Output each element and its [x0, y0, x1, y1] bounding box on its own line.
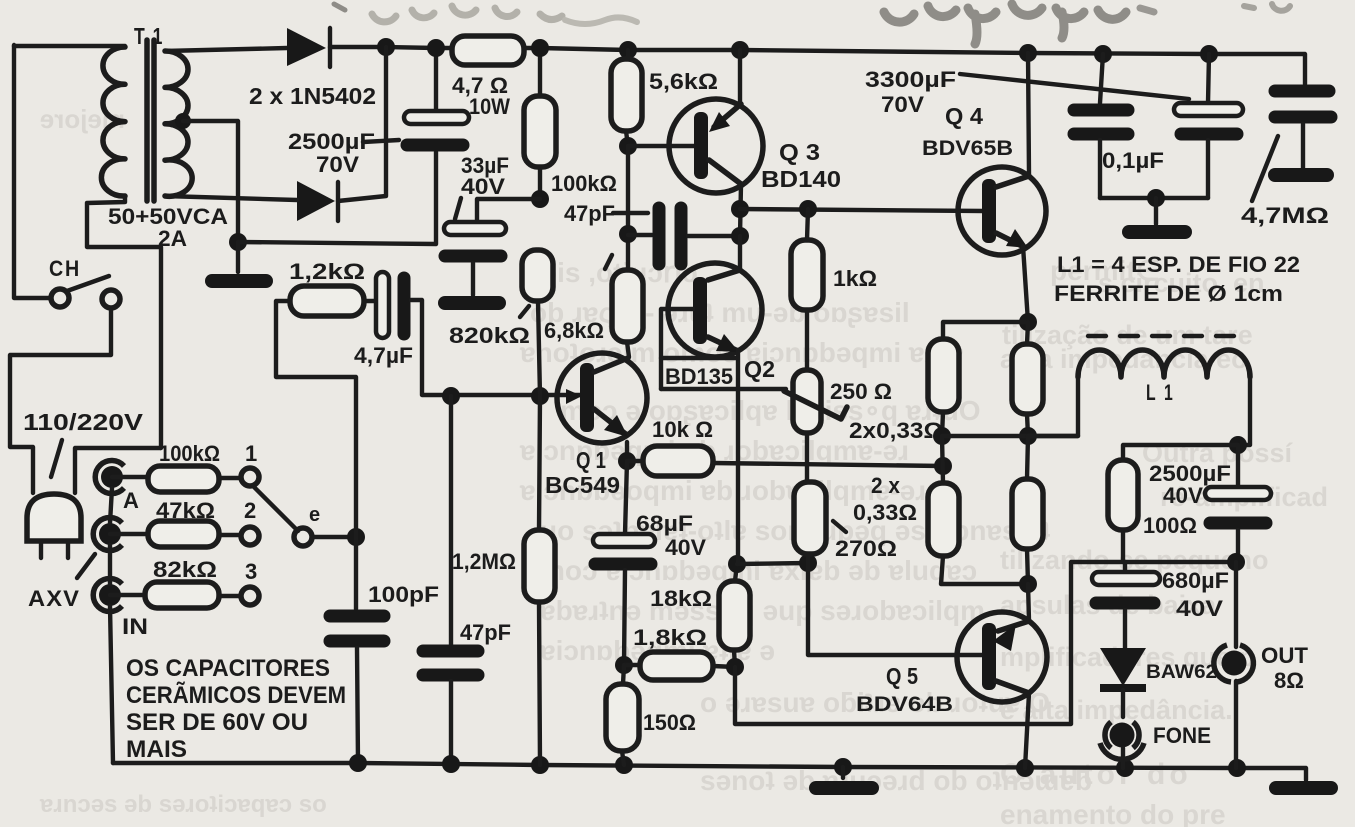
svg-text:BD140: BD140 — [761, 166, 841, 192]
node rail 5.6k — [619, 41, 637, 59]
svg-text:CERÃMICOS DEVEM: CERÃMICOS DEVEM — [126, 681, 346, 709]
node pair1 bottom right — [1019, 427, 1037, 445]
svg-text:2 x 1N5402: 2 x 1N5402 — [249, 83, 376, 109]
contact 2 — [241, 527, 259, 545]
node rail 47pF — [442, 755, 460, 773]
wire top rail — [330, 47, 1305, 84]
resistor 0.33 pair2 left — [928, 483, 1028, 584]
contact 1 — [241, 468, 259, 486]
svg-text:68µF: 68µF — [636, 511, 693, 536]
capacitor 68uF 40V — [593, 461, 655, 665]
wire jack A to resistor — [112, 475, 148, 479]
node center tap — [175, 113, 191, 129]
svg-text:MAIS: MAIS — [126, 736, 187, 763]
resistor 150R — [606, 665, 639, 765]
node rail gnd mid — [834, 758, 852, 776]
resistor 1.2k — [290, 286, 364, 316]
wire pair1 bottoms to L1 — [942, 434, 1078, 438]
wire left rail from top corner to switch CH — [14, 45, 51, 298]
svg-text:100kΩ: 100kΩ — [159, 441, 220, 466]
node e junction — [347, 528, 365, 546]
node Q4 emitter — [1019, 313, 1037, 331]
svg-text:CH: CH — [49, 256, 81, 281]
resistor 100R — [1108, 445, 1238, 562]
node Q3 base — [619, 137, 637, 155]
resistor 82k input — [145, 582, 219, 608]
node D1 output — [377, 38, 395, 56]
transistor Q3 BD140 — [669, 50, 763, 236]
node rail 1.2M — [531, 756, 549, 774]
node output junction — [1227, 553, 1245, 571]
svg-text:1: 1 — [245, 441, 257, 466]
svg-text:100pF: 100pF — [368, 582, 439, 607]
resistor 820k — [522, 250, 553, 396]
svg-text:82kΩ: 82kΩ — [153, 557, 217, 582]
svg-text:40V: 40V — [665, 535, 706, 560]
svg-text:10k Ω: 10k Ω — [652, 417, 713, 442]
node pair1 bottom left — [933, 427, 951, 445]
wire primary bottom loop to 110/220V — [75, 196, 161, 493]
wire 47pF to ground rail — [449, 681, 453, 764]
capacitor 100pF — [330, 537, 384, 763]
jack AXV — [93, 518, 122, 551]
svg-text:1,2MΩ: 1,2MΩ — [452, 549, 516, 574]
wire pair1 to pair2 left — [942, 436, 943, 483]
wire resistor to contact 1 — [219, 476, 240, 480]
svg-text:3: 3 — [245, 559, 257, 584]
svg-text:enamento do pre: enamento do pre — [1000, 799, 1226, 827]
label BD135 boxed — [661, 358, 737, 389]
wire center tap to 2500uF negative — [238, 152, 436, 244]
switch CH — [51, 276, 120, 308]
transformer T1 — [101, 40, 192, 201]
svg-text:T 1: T 1 — [134, 23, 164, 49]
wire Q3 collector to Q4 base — [740, 209, 984, 211]
svg-text:1kΩ: 1kΩ — [833, 266, 877, 291]
svg-text:BDV65B: BDV65B — [922, 137, 1013, 160]
svg-text:3300µF: 3300µF — [865, 67, 956, 92]
svg-text:ɐbɐɹʇnə məssoq əup səɹobɐɔilqm: ɐbɐɹʇnə məssoq əup səɹobɐɔilqm — [539, 595, 985, 626]
node Q3 collector — [731, 200, 749, 218]
node rail 150R — [615, 756, 633, 774]
svg-text:10W: 10W — [469, 94, 510, 119]
wire 5.6k node down to 47pF — [626, 146, 630, 270]
resistor 1k — [791, 209, 823, 370]
svg-text:18kΩ: 18kΩ — [650, 586, 712, 611]
wire 270R node to Q5 base — [808, 563, 984, 655]
svg-text:150Ω: 150Ω — [643, 710, 696, 735]
potentiometer 250R — [784, 370, 847, 433]
wire e to amp input — [312, 535, 356, 539]
jack IN — [93, 579, 122, 612]
wire 4.7uF to Q1 base — [411, 300, 581, 395]
node rail out — [1228, 759, 1246, 777]
node 18k-1.8k — [726, 658, 744, 676]
svg-text:L 1: L 1 — [1146, 380, 1175, 405]
node 1k top — [799, 200, 817, 218]
svg-text:820kΩ: 820kΩ — [449, 323, 530, 348]
wire jack IN to resistor — [110, 593, 145, 597]
wire 47pF branch down — [449, 396, 453, 645]
jack FONE — [1100, 722, 1144, 768]
capacitor 4.7M branch — [1275, 91, 1331, 168]
svg-text:AXV: AXV — [28, 586, 80, 611]
wire D2 output up to rail — [338, 47, 386, 201]
transistor Q4 BDV65B — [958, 53, 1046, 322]
capacitor 680uF 40V — [1092, 562, 1160, 648]
wire Q2 base — [661, 309, 693, 389]
resistor 0.33 pair2 right — [1012, 436, 1043, 584]
svg-text:IN: IN — [122, 614, 148, 639]
svg-text:Q 5: Q 5 — [886, 663, 918, 689]
svg-text:A: A — [123, 488, 139, 513]
jack OUT — [1214, 562, 1254, 768]
wire 10k to 0.33 pair2 — [713, 463, 943, 466]
svg-text:4,7MΩ: 4,7MΩ — [1241, 203, 1329, 228]
selector arm e — [253, 486, 312, 546]
node 10k line junction — [934, 457, 952, 475]
svg-text:8Ω: 8Ω — [1274, 668, 1304, 693]
wire Q3 base — [628, 144, 694, 148]
resistor 270R — [794, 433, 826, 563]
svg-text:47pF: 47pF — [460, 620, 511, 645]
svg-text:70V: 70V — [316, 152, 359, 177]
ground 4.7M branch — [1275, 168, 1327, 182]
svg-text:SER DE 60V OU: SER DE 60V OU — [126, 709, 308, 736]
node rail fone — [1116, 759, 1134, 777]
svg-text:L1 = 4 ESP. DE FIO 22: L1 = 4 ESP. DE FIO 22 — [1057, 252, 1300, 277]
node base-47pF junction — [442, 387, 460, 405]
resistor 5.6k — [611, 50, 642, 146]
capacitor 33uF 40V — [444, 199, 540, 295]
svg-text:1,8kΩ: 1,8kΩ — [633, 625, 707, 650]
transistor Q5 BDV64B — [957, 584, 1047, 768]
svg-text:0,1µF: 0,1µF — [1102, 148, 1164, 173]
svg-text:e: e — [309, 504, 320, 526]
transistor Q2 BD135 — [668, 236, 762, 562]
node 47pF right — [731, 227, 749, 245]
capacitor 47pF lower — [423, 651, 478, 675]
svg-text:OUT: OUT — [1261, 643, 1309, 668]
node 68uF bottom — [615, 656, 633, 674]
node base-820k junction — [531, 387, 549, 405]
ground mid rail — [841, 767, 845, 778]
resistor 10k — [627, 446, 713, 476]
wire e node to 1.2k and 100pF — [276, 301, 356, 537]
resistor 100k bias — [524, 48, 556, 199]
resistor 0.33 pair1 right — [1012, 322, 1043, 436]
svg-text:4,7µF: 4,7µF — [354, 343, 413, 368]
resistor 4.7R 10W — [452, 36, 524, 65]
node center tap junction — [229, 233, 247, 251]
svg-text:270Ω: 270Ω — [835, 536, 897, 561]
inductor L1 — [1028, 336, 1250, 445]
wire secondary bottom to diode D2 — [165, 196, 297, 200]
svg-text:40V: 40V — [1163, 483, 1203, 508]
svg-text:1,2kΩ: 1,2kΩ — [289, 259, 365, 284]
ground tie — [1154, 198, 1158, 224]
svg-text:BDV64B: BDV64B — [856, 693, 953, 716]
node rail 3300uF — [1200, 45, 1218, 63]
svg-text:250 Ω: 250 Ω — [830, 379, 892, 404]
wire 1.2k to 4.7uF — [364, 299, 376, 303]
svg-text:ɐɹnɔəs əb səɹoʇiɔɐqɐɔ so: ɐɹnɔəs əb səɹoʇiɔɐqɐɔ so — [39, 791, 327, 818]
svg-text:5,6kΩ: 5,6kΩ — [649, 69, 718, 94]
node rail Q4 — [1019, 44, 1037, 62]
svg-text:40V: 40V — [461, 174, 505, 199]
capacitor 47pF upper — [628, 208, 740, 264]
svg-text:0,33Ω: 0,33Ω — [853, 500, 917, 525]
svg-text:2: 2 — [244, 498, 256, 523]
resistor 100k input — [148, 466, 219, 492]
svg-text:BC549: BC549 — [545, 472, 620, 498]
wire bottom ground rail — [113, 763, 1306, 780]
diode D2 (1N5402) — [297, 181, 338, 221]
wire feedback to output node — [735, 562, 1236, 724]
svg-text:40V: 40V — [1176, 596, 1223, 621]
node tie ground — [1147, 189, 1165, 207]
node rail 100pF — [349, 754, 367, 772]
wire 18k to 270R — [737, 563, 808, 564]
node rail 2500uF — [427, 39, 445, 57]
resistor 18k — [719, 564, 750, 667]
node rail Q3 — [731, 41, 749, 59]
node Q1 emitter — [618, 452, 636, 470]
svg-text:FERRITE DE Ø 1cm: FERRITE DE Ø 1cm — [1054, 281, 1283, 306]
node 18k top — [728, 555, 746, 573]
svg-text:BAW62: BAW62 — [1146, 661, 1217, 683]
contact 3 — [241, 587, 259, 605]
resistor 47k input — [148, 521, 219, 547]
svg-text:680µF: 680µF — [1162, 568, 1229, 593]
node Q5 collector — [1019, 575, 1037, 593]
svg-text:47pF: 47pF — [564, 201, 615, 226]
svg-text:100kΩ: 100kΩ — [551, 171, 617, 196]
svg-text:Q2: Q2 — [744, 356, 775, 382]
resistor 6.8k — [612, 270, 643, 357]
svg-text:70V: 70V — [881, 92, 924, 117]
svg-text:FONE: FONE — [1153, 723, 1211, 748]
node L1 out — [1229, 436, 1247, 454]
capacitor 2500uF 70V — [404, 48, 469, 145]
diode BAW62 — [1100, 648, 1146, 717]
svg-text:6,8kΩ: 6,8kΩ — [544, 318, 604, 343]
svg-text:Q 3: Q 3 — [779, 139, 820, 165]
ground 33uF — [445, 296, 499, 310]
resistor 1.2M — [524, 396, 555, 765]
wire center tap down — [183, 121, 238, 242]
capacitor 3300uF 70V — [1174, 54, 1243, 198]
node rail Q5 — [1016, 759, 1034, 777]
wire jack column — [110, 488, 113, 763]
svg-text:Q 4: Q 4 — [945, 103, 983, 129]
transistor Q1 BC549 — [557, 353, 647, 461]
svg-text:2x0,33Ω: 2x0,33Ω — [849, 418, 943, 443]
svg-text:47kΩ: 47kΩ — [156, 498, 215, 523]
node rail 0.1uF — [1094, 45, 1112, 63]
wire 0.1uF 3300uF tie — [1100, 196, 1208, 200]
capacitor 4.7uF — [376, 272, 404, 338]
svg-text:BD135: BD135 — [665, 364, 733, 389]
svg-text:110/220V: 110/220V — [23, 409, 144, 435]
ground right end — [1276, 781, 1331, 795]
plug 110/220V — [27, 494, 81, 558]
node 270R bottom — [799, 554, 817, 572]
ground center tap — [236, 242, 240, 272]
resistor 1.8k — [624, 652, 735, 680]
wire top feed to transformer primary — [14, 44, 125, 48]
wire secondary top to diode D1 — [165, 48, 287, 51]
wire switch to plug — [10, 308, 111, 493]
capacitor 2500uF 40V — [1205, 445, 1271, 562]
note ceramic capacitors — [126, 655, 346, 763]
node 100k-820k-33uF — [531, 190, 549, 208]
jack A — [95, 461, 124, 494]
capacitor 0.1uF — [1074, 54, 1128, 198]
svg-text:Q 1: Q 1 — [576, 447, 606, 473]
svg-text:OS CAPACITORES: OS CAPACITORES — [126, 655, 330, 682]
wire Q2 base to pot wiper — [661, 387, 786, 391]
wire resistor to contact 3 — [219, 594, 240, 598]
wire resistor to contact 2 — [219, 533, 240, 537]
diode D1 (1N5402) — [287, 28, 330, 67]
node rail 100k — [531, 39, 549, 57]
resistor 0.33 pair1 left — [928, 339, 959, 436]
svg-text:100Ω: 100Ω — [1143, 513, 1197, 538]
svg-text:e alta impedância.: e alta impedância. — [1000, 695, 1233, 725]
wire jack AXV to resistor — [110, 532, 148, 536]
node 47pF left — [619, 225, 637, 243]
svg-text:2 x: 2 x — [871, 473, 901, 498]
wire 0.33 pair1 tops — [943, 322, 1028, 339]
